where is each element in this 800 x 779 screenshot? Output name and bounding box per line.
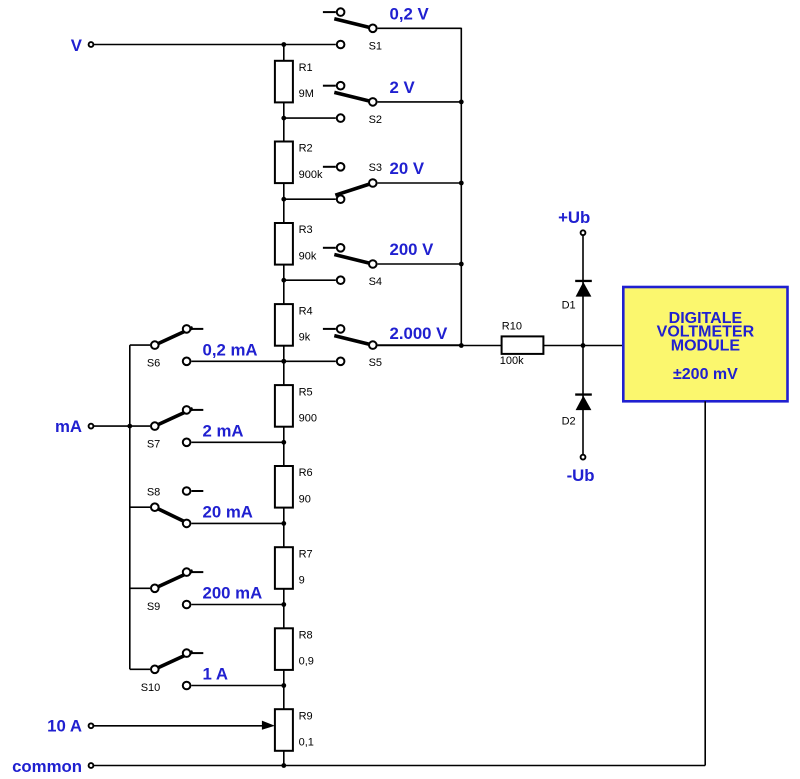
node 5 junction — [281, 359, 286, 364]
svg-text:10 A: 10 A — [47, 716, 82, 735]
resistor R6 — [275, 466, 293, 508]
resistor R7 — [275, 547, 293, 589]
svg-text:900: 900 — [299, 412, 317, 424]
wire right selector bus — [460, 28, 462, 346]
wire bus to S10 pivot — [130, 668, 150, 670]
svg-text:S6: S6 — [147, 358, 160, 370]
bus junction S5 — [459, 343, 464, 348]
wire S7 contact to node — [191, 441, 283, 443]
bus junction S4 — [459, 262, 464, 267]
junction mA bus — [127, 424, 132, 429]
svg-text:V: V — [71, 36, 83, 55]
switch S5 — [323, 325, 377, 365]
svg-text:9M: 9M — [299, 88, 314, 100]
wire S10 contact to node — [191, 685, 283, 687]
resistor R10 — [502, 336, 544, 354]
wire S3 pivot to bus — [378, 182, 462, 184]
wire 10 A with arrow into R9 — [93, 721, 275, 730]
svg-text:20 V: 20 V — [390, 159, 425, 178]
wire node 3 to S3 contact — [284, 198, 336, 200]
resistor R4 — [275, 304, 293, 346]
switch S8 — [151, 487, 203, 527]
svg-text:0,9: 0,9 — [299, 656, 314, 668]
svg-text:0,1: 0,1 — [299, 737, 314, 749]
svg-text:±200 mV: ±200 mV — [673, 366, 738, 383]
node junction — [281, 521, 286, 526]
wire V to S1 contact — [93, 44, 336, 46]
resistor R9 — [275, 709, 293, 751]
switch S3 — [323, 163, 377, 203]
wire left selector bus — [129, 345, 131, 669]
svg-text:S5: S5 — [369, 357, 382, 369]
svg-text:S4: S4 — [369, 276, 382, 288]
switch S6 — [151, 325, 203, 365]
svg-text:-Ub: -Ub — [567, 466, 595, 485]
switch S10 — [151, 649, 203, 689]
resistor R2 — [275, 142, 293, 184]
resistor R1 — [275, 61, 293, 103]
wire S5 pivot to bus — [378, 344, 462, 346]
svg-text:9: 9 — [299, 575, 305, 587]
junction diode branch — [581, 343, 586, 348]
wire bus to S7 pivot — [130, 425, 150, 427]
wire S4 pivot to bus — [378, 263, 462, 265]
svg-text:R3: R3 — [299, 224, 313, 236]
node junction — [281, 683, 286, 688]
svg-text:R4: R4 — [299, 305, 313, 317]
svg-text:R7: R7 — [299, 548, 313, 560]
svg-text:S2: S2 — [369, 114, 382, 126]
resistor R8 — [275, 628, 293, 670]
node V junction — [281, 42, 286, 47]
svg-text:R6: R6 — [299, 467, 313, 479]
svg-text:100k: 100k — [500, 355, 524, 367]
diode D1 — [575, 235, 592, 346]
svg-text:S3: S3 — [369, 162, 382, 174]
wire S6 contact to node — [191, 360, 283, 362]
wire bus to S6 pivot — [130, 344, 150, 346]
svg-text:S8: S8 — [147, 487, 160, 499]
svg-text:90: 90 — [299, 493, 311, 505]
wire node 4 to S4 contact — [284, 279, 336, 281]
wire resistor chain vertical — [283, 45, 285, 766]
node junction — [281, 359, 286, 364]
wire bus to S8 pivot — [130, 506, 150, 508]
wire bus to S9 pivot — [130, 587, 150, 589]
resistor R3 — [275, 223, 293, 265]
bus junction S2 — [459, 100, 464, 105]
wire S5 to R10 — [378, 345, 502, 347]
svg-text:S9: S9 — [147, 601, 160, 613]
svg-text:0,2 V: 0,2 V — [390, 5, 430, 24]
svg-text:common: common — [12, 757, 82, 776]
module text — [657, 310, 755, 383]
resistor R5 — [275, 385, 293, 427]
svg-text:20 mA: 20 mA — [203, 503, 253, 522]
wire R10 to module — [543, 345, 623, 347]
svg-text:R5: R5 — [299, 386, 313, 398]
svg-text:S1: S1 — [369, 40, 382, 52]
svg-text:200 mA: 200 mA — [203, 584, 263, 603]
svg-text:90k: 90k — [299, 250, 317, 262]
svg-text:R10: R10 — [502, 320, 522, 332]
svg-text:R2: R2 — [299, 143, 313, 155]
switch S1 — [323, 8, 377, 48]
wire S2 pivot to bus — [378, 101, 462, 103]
wire S8 contact to node — [191, 522, 283, 524]
wire S1 pivot to bus — [378, 27, 462, 29]
wire module to common — [704, 401, 706, 765]
svg-text:9k: 9k — [299, 331, 311, 343]
svg-text:D1: D1 — [562, 300, 576, 312]
switch S4 — [323, 244, 377, 284]
wire node 2 to S2 contact — [284, 117, 336, 119]
switch S2 — [323, 82, 377, 122]
node 2 junction — [281, 116, 286, 121]
junction chain to common — [281, 763, 286, 768]
wire common rail — [93, 765, 705, 767]
svg-text:S10: S10 — [141, 682, 161, 694]
node junction — [281, 440, 286, 445]
svg-text:1 A: 1 A — [203, 665, 229, 684]
svg-text:200 V: 200 V — [390, 240, 435, 259]
svg-text:2 V: 2 V — [390, 78, 416, 97]
node junction — [281, 602, 286, 607]
svg-text:2 mA: 2 mA — [203, 422, 244, 441]
svg-text:2.000 V: 2.000 V — [390, 324, 449, 343]
wire mA to bus — [93, 425, 130, 427]
node 3 junction — [281, 197, 286, 202]
switch S7 — [151, 406, 203, 446]
switch S9 — [151, 568, 203, 608]
svg-text:+Ub: +Ub — [558, 208, 590, 227]
svg-text:R9: R9 — [299, 710, 313, 722]
svg-text:MODULE: MODULE — [671, 338, 741, 355]
module U1 digital voltmeter — [623, 287, 787, 401]
bus junction S3 — [459, 181, 464, 186]
svg-text:D2: D2 — [562, 416, 576, 428]
svg-text:0,2 mA: 0,2 mA — [203, 341, 258, 360]
wire S9 contact to node — [191, 604, 283, 606]
svg-text:R8: R8 — [299, 630, 313, 642]
node 4 junction — [281, 278, 286, 283]
diode D2 — [575, 346, 592, 455]
wire node 5 to S5 contact — [284, 360, 336, 362]
svg-text:S7: S7 — [147, 439, 160, 451]
svg-text:mA: mA — [55, 417, 82, 436]
svg-text:R1: R1 — [299, 62, 313, 74]
svg-text:900k: 900k — [299, 169, 323, 181]
